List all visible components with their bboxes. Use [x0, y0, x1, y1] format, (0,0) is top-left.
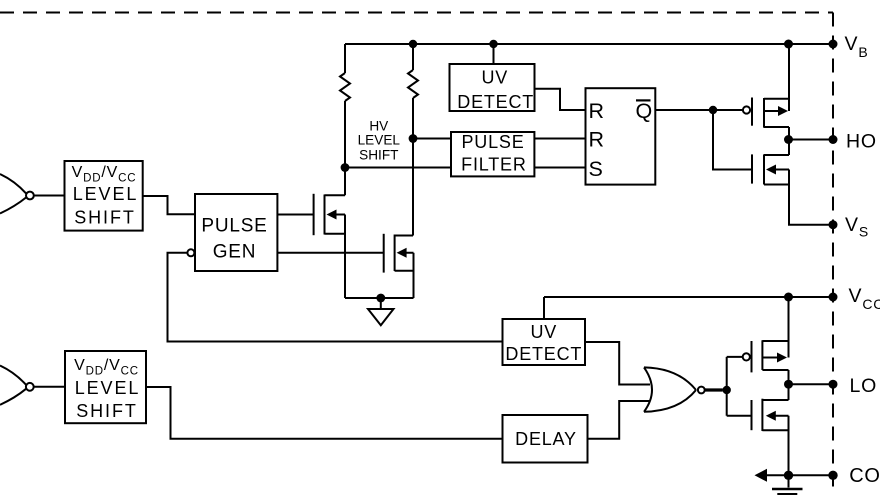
- svg-text:DETECT: DETECT: [505, 344, 582, 364]
- svg-text:LEVEL: LEVEL: [358, 133, 401, 148]
- svg-text:PULSE: PULSE: [461, 132, 524, 152]
- svg-text:UV: UV: [481, 68, 508, 88]
- svg-text:SHIFT: SHIFT: [74, 208, 136, 228]
- svg-text:LEVEL: LEVEL: [73, 184, 139, 204]
- svg-text:FILTER: FILTER: [461, 155, 526, 175]
- svg-text:DETECT: DETECT: [457, 92, 534, 112]
- svg-text:HO: HO: [846, 131, 877, 153]
- svg-text:SHIFT: SHIFT: [76, 401, 138, 421]
- svg-text:Q: Q: [636, 99, 654, 123]
- svg-text:HV: HV: [369, 118, 388, 133]
- svg-text:COM: COM: [849, 465, 880, 487]
- svg-text:GEN: GEN: [213, 241, 257, 262]
- svg-text:UV: UV: [530, 322, 557, 342]
- svg-text:DELAY: DELAY: [515, 429, 577, 449]
- svg-text:PULSE: PULSE: [201, 216, 267, 237]
- svg-text:S: S: [589, 157, 604, 181]
- svg-text:R: R: [589, 128, 605, 152]
- svg-text:LEVEL: LEVEL: [75, 378, 141, 398]
- svg-text:SHIFT: SHIFT: [359, 147, 398, 162]
- svg-text:R: R: [589, 99, 605, 123]
- svg-text:LO: LO: [850, 375, 878, 397]
